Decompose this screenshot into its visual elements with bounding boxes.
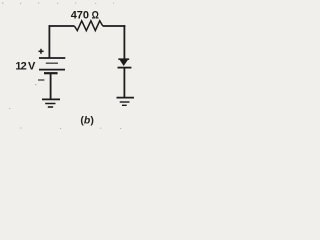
svg-text:Ω: Ω xyxy=(92,10,99,22)
wire right vertical from diode to ground xyxy=(123,68,125,98)
ground left bar 3 xyxy=(48,106,53,108)
svg-text:(b): (b) xyxy=(80,114,93,126)
svg-text:12 V: 12 V xyxy=(15,61,36,73)
wire left vertical from top rail to battery xyxy=(48,25,50,58)
ground right bar 2 xyxy=(120,101,130,103)
minus sign of battery xyxy=(38,79,44,81)
wire left vertical from battery to ground xyxy=(50,73,52,99)
ground left bar 1 xyxy=(42,98,60,100)
diode D1 cathode bar xyxy=(118,67,132,69)
diode D1 anode triangle xyxy=(118,59,129,66)
battery V1 plate 3 long xyxy=(39,69,65,71)
wire top rail right segment xyxy=(103,25,126,27)
battery V1 plate 1 long positive xyxy=(39,57,65,59)
battery V1 plate 2 short xyxy=(46,62,58,64)
battery V1 plate 4 short thick negative xyxy=(44,72,58,74)
ground right bar 3 xyxy=(122,104,127,106)
ground right bar 1 xyxy=(117,97,135,99)
wire right vertical from top rail to diode xyxy=(123,25,125,59)
resistor R 470 ohm zigzag xyxy=(74,21,102,31)
svg-text:470: 470 xyxy=(71,9,89,21)
plus sign of battery xyxy=(39,49,44,54)
value label 470 ohm xyxy=(71,9,99,21)
scan speckles xyxy=(2,2,121,129)
ground left bar 2 xyxy=(45,103,55,105)
wire top rail left segment xyxy=(49,25,75,27)
